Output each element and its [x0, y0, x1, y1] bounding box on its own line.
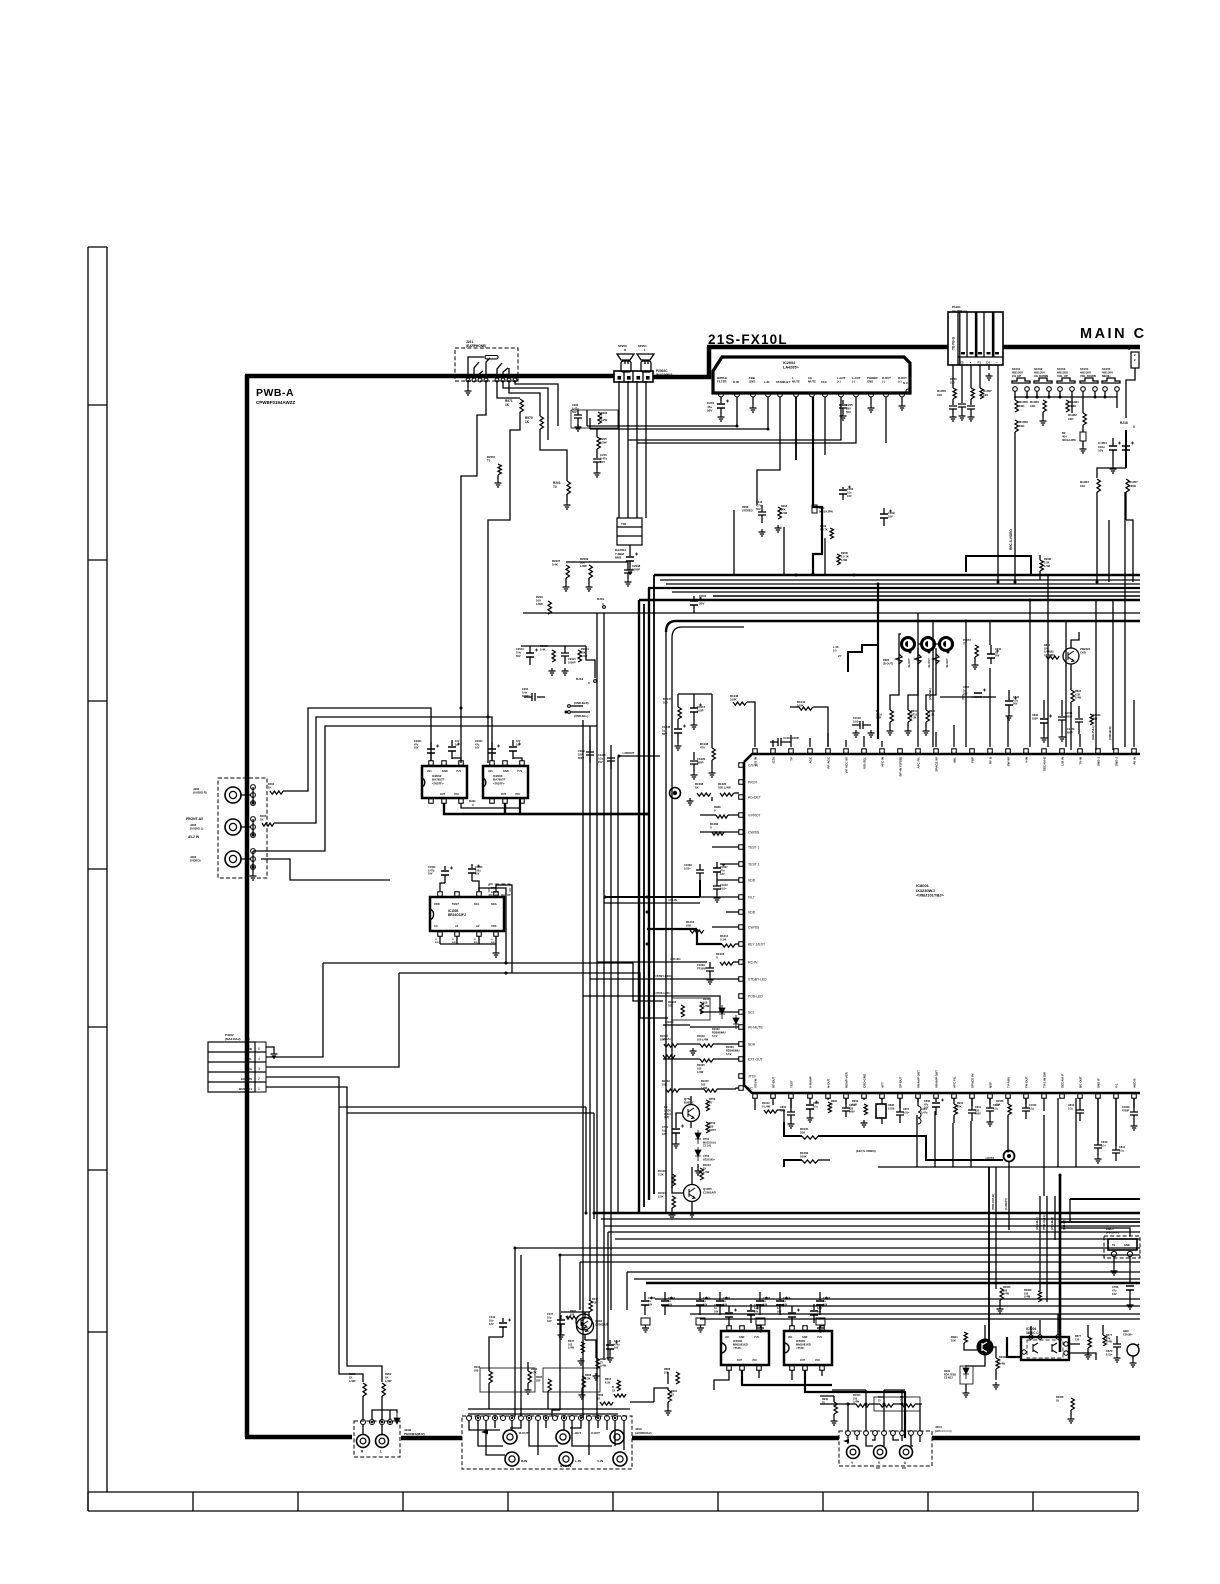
IC8001 top pin 4	[808, 749, 813, 754]
svg-text:10K: 10K	[1019, 404, 1025, 408]
phones pin circles	[361, 1420, 366, 1425]
IC5004 box	[1021, 1337, 1069, 1360]
svg-text:AV1: AV1	[725, 1336, 730, 1339]
IC8001 bottom pin 15	[1006, 1094, 1011, 1099]
capacitor C1004e	[444, 866, 446, 870]
IC8001 bottom pin 10	[916, 1094, 921, 1099]
svg-text:0.1u: 0.1u	[1029, 1107, 1034, 1110]
svg-text:680P: 680P	[697, 761, 704, 765]
capacitor above IC2002 b	[451, 740, 453, 746]
bus bottom y1262	[580, 1261, 1140, 1263]
svg-text:680: 680	[1093, 717, 1098, 720]
svg-text:L: L	[644, 348, 646, 352]
svg-text:▲ C1019 1000P: ▲ C1019 1000P	[780, 736, 799, 740]
main top edge segment 3	[707, 345, 948, 350]
capacitor C836b	[1043, 700, 1045, 718]
capacitor C5001	[750, 1304, 752, 1310]
inductor L904	[917, 1098, 919, 1106]
svg-text:0.4u: 0.4u	[516, 650, 522, 654]
wire spare stub	[261, 859, 390, 880]
svg-text:POS-LED: POS-LED	[748, 995, 763, 999]
svg-text:16V: 16V	[847, 494, 852, 498]
svg-text:SECAM IF: SECAM IF	[1061, 1073, 1065, 1088]
svg-text:2.2-1K: 2.2-1K	[841, 554, 849, 558]
resistor R1061 6.8K	[1066, 400, 1069, 412]
IC5005 box	[784, 1331, 832, 1365]
wire pin13 gnd	[901, 397, 903, 403]
IC8001 left pin KEY 1/EXT	[739, 942, 744, 947]
svg-text:(CD): (CD)	[772, 757, 776, 763]
ground below R1060	[1040, 418, 1047, 425]
svg-text:100K: 100K	[800, 1155, 807, 1159]
J201 ground stub	[467, 380, 469, 388]
wire audio L to IC2003	[274, 717, 492, 823]
bus line y621 bold with rounded corner	[666, 621, 1140, 632]
svg-text:AG-DET: AG-DET	[748, 796, 761, 800]
wire P1001 pin5 gnd	[988, 365, 990, 370]
svg-text:CH DOWN: CH DOWN	[1034, 374, 1048, 378]
long wire x604	[603, 613, 605, 1360]
capacitor C202 0.47u	[574, 415, 582, 418]
ground below C2003	[627, 567, 634, 574]
IC2004 pin 4 L-IN	[766, 392, 771, 397]
svg-text:10: 10	[709, 1100, 712, 1104]
resistor R966 0	[716, 815, 728, 818]
resistor R2012 0.4K	[552, 650, 555, 662]
svg-text:0.5: 0.5	[833, 649, 837, 652]
bottom ruler tick 5	[507, 1492, 509, 1511]
jack R-IN	[505, 1452, 519, 1466]
wire x990 from C840	[989, 621, 991, 645]
svg-text:<TU8>: <TU8>	[796, 1346, 805, 1350]
svg-text:2.2K: 2.2K	[1044, 560, 1050, 564]
capacitor C809 0.1u	[787, 1112, 795, 1115]
net stub FRONT	[618, 755, 621, 758]
svg-text:VIF VCC 9V: VIF VCC 9V	[845, 757, 849, 773]
bus line y584	[666, 583, 1140, 585]
capacitor C807 0.01	[896, 1112, 904, 1115]
phones top link wires	[372, 1410, 397, 1419]
wire drop x825b to bus	[824, 538, 826, 575]
IC8001 bottom pin 4	[808, 1094, 813, 1099]
bottom ruler tick 1	[87, 1492, 89, 1511]
bus bottom y1279	[634, 1278, 1140, 1280]
resistor R1013 10K	[690, 930, 704, 933]
transistor Q1004 filled	[978, 1340, 993, 1355]
svg-text:16V: 16V	[475, 747, 480, 750]
svg-text:L/4W: L/4W	[385, 1379, 392, 1383]
net stub UND-BLL	[568, 711, 571, 714]
resistor R1046 100K	[733, 702, 747, 705]
capacitor C1007 47u	[713, 868, 721, 872]
svg-text:RJ18: RJ18	[1120, 421, 1128, 425]
S-video jacks dashed box	[839, 1431, 932, 1466]
bus bottom y1299	[655, 1298, 1140, 1300]
wire P4002 BUSAC row	[266, 1087, 347, 1113]
capacitor C2061	[699, 1292, 701, 1300]
svg-text:YUV: YUV	[456, 770, 461, 773]
bottom ruler tick 11	[1137, 1492, 1139, 1511]
resistor P1073 75	[975, 645, 978, 657]
resistor R868 100	[676, 1372, 679, 1384]
resistor R305 550	[548, 1379, 551, 1391]
svg-text:16V: 16V	[475, 873, 480, 876]
resistor R1040 2.2K	[672, 1174, 675, 1186]
wire J201 pin to IC2002	[461, 380, 486, 763]
IC8001 bottom pin 21	[1114, 1094, 1119, 1099]
IC8001 left pin FILT	[739, 895, 744, 900]
resistor R1057b 100K	[1126, 479, 1129, 492]
svg-text:A1-J1: A1-J1	[491, 891, 498, 894]
resistor R1038 10K	[1008, 1104, 1011, 1115]
IC2004 pin 10 L-OUT	[854, 392, 859, 397]
svg-text:16V: 16V	[668, 1303, 673, 1306]
svg-text:4-7K: 4-7K	[531, 1370, 537, 1374]
svg-text:1u: 1u	[455, 743, 458, 746]
svg-text:R1005: R1005	[697, 1063, 705, 1067]
resistor R303 75	[596, 1358, 599, 1369]
svg-text:(TRD-OUT,L): (TRD-OUT,L)	[1042, 1214, 1046, 1230]
svg-text:↓: ↓	[476, 888, 477, 891]
wire pin12 down	[885, 397, 887, 443]
capacitor C1052	[958, 404, 966, 407]
svg-text:50V: 50V	[699, 602, 704, 606]
svg-text:<B-OUT: <B-OUT	[907, 658, 911, 668]
wire pin11 gnd	[870, 397, 872, 405]
IC8001 left pin VDD	[739, 910, 744, 915]
left ruler tick 1	[88, 404, 107, 406]
wire NC pin	[736, 1088, 739, 1089]
capacitor C5002	[728, 1306, 730, 1312]
svg-text:AV-1 IN: AV-1 IN	[560, 1464, 572, 1468]
IC8001 left pin EXT OUT	[739, 1057, 744, 1062]
svg-text:10K: 10K	[951, 1339, 956, 1343]
svg-text:16V: 16V	[547, 1319, 552, 1323]
svg-text:1K: 1K	[1056, 1399, 1059, 1402]
vertical wire x966 net	[965, 621, 967, 747]
svg-text:Y: Y	[851, 1461, 854, 1465]
svg-text:C314: C314	[756, 500, 763, 504]
IC2004 pin 5 STAND-BY	[778, 392, 783, 397]
IC2004 pin 12 R-OUT	[884, 392, 889, 397]
svg-text:C2562AR: C2562AR	[703, 1191, 717, 1195]
left ruler tick 3	[88, 700, 107, 702]
svg-text:470: 470	[700, 746, 705, 750]
resistor R20N 2.2K	[837, 554, 840, 565]
resistor R1015 0	[720, 962, 733, 965]
circled device D803	[940, 638, 953, 651]
svg-text:5V: 5V	[1112, 1243, 1115, 1247]
IC8001 top pin 9	[898, 749, 903, 754]
capacitor C2062	[719, 1292, 721, 1300]
speaker connector P2002C	[614, 371, 653, 382]
sensor inner box	[1108, 1239, 1137, 1250]
svg-text:0.4K: 0.4K	[552, 563, 558, 567]
svg-text:0.01=: 0.01=	[684, 866, 691, 870]
svg-text:10K: 10K	[660, 1037, 665, 1041]
capacitor C842	[1008, 690, 1010, 700]
wire P4002 SCL row	[266, 963, 323, 1057]
svg-text:600V: 600V	[975, 1113, 981, 1116]
IC1005 top pins	[438, 892, 443, 897]
resistor R1045 100	[704, 1089, 717, 1092]
jack terminals y795	[251, 785, 256, 790]
svg-text:2?: 2?	[838, 654, 842, 658]
svg-text:(AUDIO L): (AUDIO L)	[190, 827, 203, 831]
IC8001 bottom pin 1	[753, 1094, 758, 1099]
capacitor C314b 470u	[609, 1340, 611, 1344]
bus below IC y1167	[878, 1166, 1140, 1168]
svg-text:FILT: FILT	[748, 896, 755, 900]
svg-text:C1018: C1018	[853, 716, 861, 720]
capacitor C5003	[791, 1306, 793, 1312]
svg-text:50V: 50V	[435, 942, 439, 944]
svg-text:VDD: VDD	[748, 911, 756, 915]
resistor network below trio 1	[890, 710, 893, 722]
resistor R801 100	[1046, 656, 1059, 659]
svg-text:16V: 16V	[428, 873, 433, 876]
svg-text:JTCF: JTCF	[748, 1075, 756, 1079]
svg-text:100K: 100K	[730, 698, 737, 702]
svg-text:RF-AGC: RF-AGC	[827, 756, 831, 768]
svg-text:R302: R302	[597, 1393, 604, 1397]
IC8001 bottom pin 6	[844, 1094, 849, 1099]
svg-text:5.1V: 5.1V	[726, 1052, 732, 1056]
resistor RH058 10K	[1015, 400, 1018, 412]
ground below C1004	[1110, 466, 1117, 473]
bus bottom y1219	[601, 1218, 1140, 1220]
RT dashes box	[489, 884, 510, 895]
svg-text:1u: 1u	[516, 743, 519, 746]
front AV jacks dashed box	[218, 778, 267, 878]
wire drop x580	[579, 1262, 581, 1310]
capacitor C314	[758, 512, 766, 515]
capacitor C20B 600P	[589, 740, 591, 751]
svg-text:R-IN: R-IN	[521, 1459, 527, 1463]
IC5005 top pins	[790, 1326, 795, 1331]
ground R2008	[1070, 1410, 1072, 1416]
wire cluster y646	[521, 646, 595, 678]
svg-text:C310: C310	[489, 1315, 496, 1319]
ground below pin11	[868, 405, 875, 412]
capacitor C1013 0.01	[713, 886, 721, 889]
svg-text:47u: 47u	[1112, 1288, 1117, 1292]
resistor R2005 100	[1000, 1288, 1003, 1300]
svg-text:1K: 1K	[349, 1376, 352, 1380]
IC2002 top pins	[429, 761, 434, 766]
IC2004 pin 3 FBB	[751, 392, 756, 397]
wire drop x784 to bus	[783, 527, 785, 575]
svg-text:ABL: ABL	[953, 757, 957, 763]
svg-text:C5.1A): C5.1A)	[703, 1145, 711, 1148]
wire S1001 key line long vertical	[1014, 432, 1016, 582]
wire pin7 bold down	[813, 397, 822, 574]
bus bottom y1314	[690, 1313, 1140, 1315]
AV-1 top pin row	[467, 1416, 472, 1421]
svg-text:1K: 1K	[612, 1388, 615, 1392]
resistor R2001 T0	[498, 464, 501, 475]
svg-text:C1007: C1007	[720, 865, 728, 869]
wire from edge to RJ18	[1126, 368, 1135, 418]
bus wire SDA horizontal	[399, 973, 668, 1018]
svg-text:0.1u: 0.1u	[813, 1105, 818, 1108]
bottom ruler tick 10	[1032, 1492, 1034, 1511]
wire pin6 VCC bold	[795, 397, 797, 460]
svg-text:GND: GND	[802, 1336, 808, 1339]
wire to R1064	[1097, 468, 1126, 478]
resistor R1020 10K	[720, 793, 734, 796]
J201 pin 6	[501, 378, 505, 382]
svg-text:RJ19: RJ19	[597, 597, 605, 601]
svg-text:AV-2 IN: AV-2 IN	[188, 835, 200, 839]
resistor R1008 1K	[697, 793, 711, 796]
svg-text:TV-2 IN SW: TV-2 IN SW	[1043, 1072, 1047, 1088]
svg-text:16V: 16V	[754, 1310, 759, 1313]
box around C202 R206	[571, 410, 618, 428]
IC2004 pin 2 R-IN	[735, 392, 740, 397]
ground R301	[667, 1402, 669, 1408]
IC8001 bottom pin 7	[862, 1094, 867, 1099]
svg-text:1K: 1K	[505, 403, 510, 407]
svg-text:L/4W: L/4W	[703, 1004, 710, 1008]
ferrite ADF	[812, 505, 817, 513]
svg-text:16V: 16V	[720, 872, 725, 876]
svg-text:100P: 100P	[697, 709, 704, 713]
svg-text:U: U	[904, 1461, 907, 1465]
svg-text:(UV1-BLR): (UV1-BLR)	[1050, 1217, 1054, 1230]
wires speaker connector down	[619, 381, 646, 518]
svg-text:0.1u: 0.1u	[1119, 1149, 1124, 1152]
svg-text:TEST: TEST	[790, 1080, 794, 1088]
capacitor C2067	[664, 1292, 666, 1300]
resistor R337 102	[581, 1342, 584, 1353]
svg-text:L/4W: L/4W	[697, 1070, 704, 1074]
long wire x590	[589, 726, 591, 1300]
svg-text:TEST 2: TEST 2	[748, 863, 760, 867]
ground at J201	[465, 388, 472, 395]
svg-text:(MA1000U): (MA1000U)	[656, 373, 672, 377]
wire trio drops	[890, 648, 936, 710]
bold step wire right2	[1039, 571, 1041, 580]
svg-text:TP: TP	[790, 757, 794, 761]
svg-text:C2013: C2013	[516, 647, 524, 651]
wire svideo feed	[820, 1396, 922, 1404]
svg-text:L/4W: L/4W	[999, 1363, 1006, 1366]
wire R1049 to pins	[678, 694, 712, 770]
transistor Q304	[577, 1318, 594, 1335]
wire CWSS	[700, 831, 739, 833]
box around R310 group	[480, 1368, 535, 1392]
svg-text:A2: A2	[476, 924, 480, 928]
IC5005 bottom pins	[790, 1366, 795, 1371]
microphone circle	[1127, 1344, 1139, 1356]
bus bottom y1319	[700, 1318, 1140, 1320]
svg-text:2: 2	[258, 1077, 260, 1081]
AV-1 arrow marker	[481, 1430, 488, 1435]
IC5006 bottom pins	[727, 1366, 732, 1371]
svg-text:10u: 10u	[489, 1318, 494, 1322]
bus bottom y1272	[627, 1271, 1140, 1273]
svg-text:0 1/4: 0 1/4	[720, 938, 727, 942]
capacitor C201 47u	[717, 404, 725, 408]
capacitor C2008 1000P	[624, 570, 632, 573]
connector J201 earphone dashed box	[455, 348, 518, 381]
capacitor C1051	[952, 399, 954, 405]
svg-text:10K: 10K	[1030, 404, 1036, 408]
vertical x1048 net	[1047, 575, 1049, 747]
PWB-A border left edge	[245, 375, 250, 1437]
ground R314	[527, 1383, 529, 1387]
capacitor C1053	[970, 399, 972, 405]
IC8001 left pin TEST 2	[739, 862, 744, 867]
IC8001 top pin 10	[916, 749, 921, 754]
wire JTCF	[679, 1088, 704, 1090]
svg-text:L/4W: L/4W	[853, 1401, 860, 1404]
svg-text:<7657F>: <7657F>	[432, 781, 444, 785]
svg-text:<B-OUT: <B-OUT	[927, 658, 931, 668]
earphone jack switch contacts	[468, 357, 509, 377]
wire CWSS2 pin	[712, 926, 739, 928]
svg-text:GND: GND	[1124, 1243, 1130, 1247]
svg-text:AV1: AV1	[427, 770, 432, 773]
wire R200 to pin	[363, 1396, 382, 1419]
svg-text:PROT: PROT	[748, 781, 757, 785]
wire x918 from bus	[917, 613, 919, 700]
main top edge segment 4	[1003, 345, 1140, 350]
svg-text:R1003: R1003	[662, 1079, 670, 1083]
svg-text:50V: 50V	[452, 942, 456, 944]
long wire x597	[596, 613, 598, 1418]
svg-text:10K: 10K	[1068, 417, 1074, 421]
wire IC5005 pins down	[792, 1370, 822, 1380]
bold vertical x989	[988, 1167, 990, 1345]
svg-text:STAND-BY: STAND-BY	[776, 380, 790, 384]
ground below C1017	[691, 722, 698, 729]
svg-text:1/: 1/	[491, 939, 493, 941]
capacitor C2066	[644, 1292, 646, 1300]
wire R201 to ground	[566, 494, 568, 502]
bus line y613 thin full	[523, 612, 1140, 614]
resistor R20M 2.2K	[1040, 560, 1043, 571]
bold L wire IC5004	[1007, 1337, 1021, 1357]
bold wire below IC5005	[805, 1370, 905, 1438]
bottom ruler tick 6	[612, 1492, 614, 1511]
resistor R404 1K	[270, 791, 283, 794]
speaker SP201 L	[637, 354, 654, 360]
sensor feed wire	[1060, 1228, 1130, 1236]
svg-text:(-): (-)	[882, 379, 885, 383]
resistor R1074 10K	[664, 1044, 677, 1047]
jack terminals y827	[251, 817, 256, 822]
svg-text:0.1=: 0.1=	[1101, 1144, 1106, 1147]
wire pin2 left bus	[587, 397, 737, 426]
capacitor C751	[675, 1124, 677, 1128]
svg-text:10u: 10u	[547, 1315, 552, 1319]
svg-text:AGC: AGC	[809, 756, 813, 764]
svg-text:<7657F>: <7657F>	[493, 781, 505, 785]
ground R877	[1087, 1348, 1089, 1352]
wire P4002 EXBUS row	[266, 1077, 339, 1107]
svg-text:T0: T0	[553, 485, 557, 489]
resistor RX041 10K	[802, 1136, 818, 1139]
vertical bus x672 long	[671, 638, 673, 1188]
svg-text:10K: 10K	[686, 924, 691, 928]
J201 pin 8	[513, 378, 517, 382]
S-video top pin row	[846, 1431, 851, 1436]
IC8001 top pin 20	[1096, 749, 1101, 754]
wire P1001 pin4	[979, 365, 981, 388]
connector P1001 box	[948, 312, 1003, 365]
